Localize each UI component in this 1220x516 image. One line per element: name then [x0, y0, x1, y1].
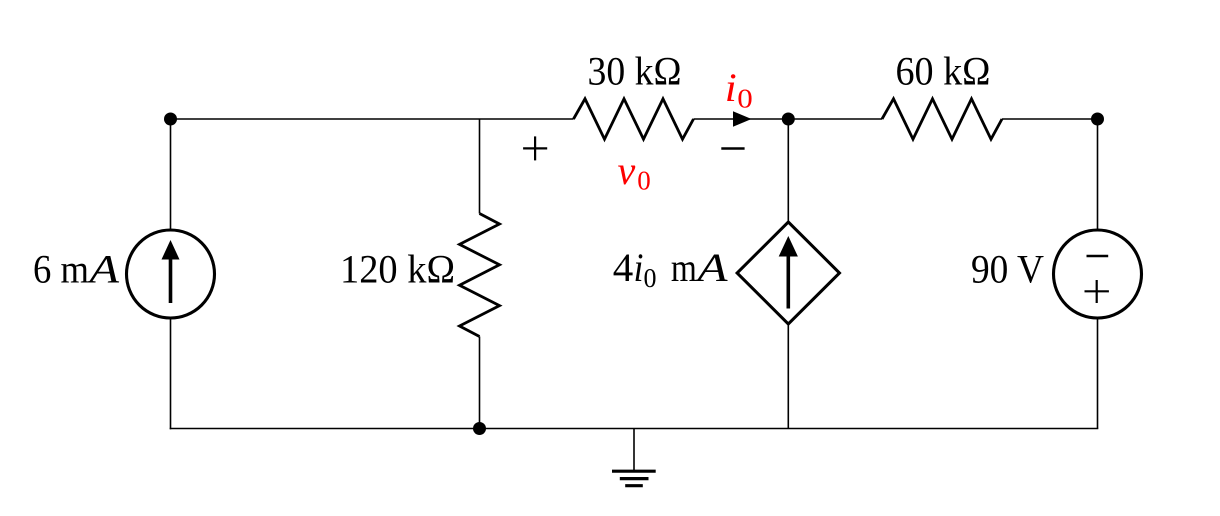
- svg-text:m: m: [671, 245, 697, 290]
- current arrow i0: [733, 111, 752, 126]
- svg-text:v: v: [618, 148, 636, 193]
- wire ground stem: [633, 429, 635, 471]
- svg-text:0: 0: [644, 263, 657, 293]
- node A dot: [164, 113, 177, 126]
- svg-text:6 m: 6 m: [33, 246, 89, 291]
- polarity minus v0: [721, 147, 744, 149]
- svg-text:A: A: [86, 246, 120, 291]
- node C dot: [1091, 113, 1104, 126]
- svg-text:120 kΩ: 120 kΩ: [340, 247, 455, 292]
- svg-text:90 V: 90 V: [971, 247, 1044, 292]
- wire diamond branch top: [787, 119, 789, 224]
- node G dot: [473, 422, 486, 435]
- wire right branch top: [1097, 119, 1099, 231]
- resistor R2 30 kOhm: [574, 99, 694, 139]
- svg-text:0: 0: [637, 166, 651, 196]
- polarity plus v0: [523, 136, 547, 160]
- wire 120k branch bottom: [479, 337, 481, 429]
- wire 120k branch top: [479, 119, 481, 214]
- label 6 mA: [33, 246, 120, 291]
- svg-text:A: A: [694, 245, 728, 290]
- wire right branch bottom: [1097, 317, 1099, 429]
- wire diamond branch bottom: [787, 322, 789, 429]
- label 4i0 mA: [613, 245, 728, 293]
- label i0: [725, 65, 753, 114]
- wire top rail left: [171, 118, 574, 120]
- label v0: [618, 148, 651, 196]
- svg-text:30 kΩ: 30 kΩ: [588, 49, 682, 94]
- ground: [612, 471, 656, 486]
- svg-text:60 kΩ: 60 kΩ: [896, 49, 991, 94]
- wire top rail mid: [694, 118, 883, 120]
- dependent current source 4i0: [737, 222, 839, 324]
- wire left branch bottom: [170, 317, 172, 429]
- svg-text:4: 4: [613, 245, 634, 290]
- node B dot: [782, 113, 795, 126]
- svg-text:i: i: [725, 65, 737, 110]
- wire bottom rail: [170, 428, 1099, 430]
- resistor R3 60 kOhm: [882, 99, 1002, 139]
- resistor R1 120 kOhm: [460, 214, 500, 337]
- wire left branch top: [170, 119, 172, 231]
- current source I1 6 mA: [127, 230, 215, 318]
- wire top rail right: [1002, 118, 1098, 120]
- svg-text:i: i: [634, 245, 644, 290]
- voltage source V1 90 V: [1054, 230, 1142, 318]
- svg-text:0: 0: [737, 84, 753, 114]
